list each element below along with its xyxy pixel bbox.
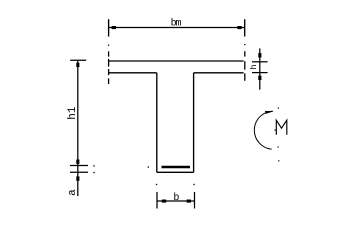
dimension a: outside box arrow below (76, 176, 79, 180)
extension dots from a-dimension to beam (93, 165, 149, 173)
dimension bm: left box arrow (112, 26, 116, 29)
svg-text:h1: h1 (67, 106, 79, 120)
dimension h1: bottom box arrow (76, 160, 79, 164)
flange right cut line (dashed) (244, 44, 246, 81)
svg-text:a: a (67, 189, 79, 196)
moment arc (254, 111, 272, 149)
flange left cut line (dashed) (108, 45, 110, 84)
dimension h1/a: dimension line (vertical) (77, 60, 79, 196)
dimension h: top extension tick (252, 61, 268, 63)
flange bottom line right of web (194, 72, 244, 74)
dimension h: bottom extension tick (252, 72, 268, 74)
flange top line (109, 60, 244, 62)
dimension b: left extension tick (156, 192, 158, 209)
dimension bm: left extension tick (108, 19, 110, 36)
dimension bm: right box arrow (237, 26, 241, 29)
svg-text:h: h (249, 64, 259, 69)
web right line (193, 73, 195, 173)
svg-text:b: b (173, 192, 179, 204)
moment label M (276, 120, 287, 135)
extension dots from web corners to b-dimension (156, 184, 195, 185)
reinforcement bar (thick line) (162, 166, 191, 168)
dimension b: left box arrow (162, 200, 166, 203)
svg-text:m: m (176, 19, 182, 30)
dimension b: dimension line (157, 200, 195, 202)
dimension bm: right extension tick (244, 19, 246, 36)
dimension bm: dimension line (109, 27, 245, 29)
flange bottom line left of web (109, 72, 157, 74)
dimension h: outside box arrow above (258, 53, 261, 57)
dimension b: right box arrow (187, 200, 191, 203)
dimension b: right extension tick (194, 192, 196, 209)
moment arrowhead (265, 111, 274, 114)
dimension h: outside box arrow below (258, 76, 261, 80)
web left line (156, 73, 158, 173)
dimension a: upper extension tick (steel centroid level) (70, 165, 88, 167)
stray plot dots near moment symbol (275, 107, 280, 161)
dimension h1: top box arrow (76, 63, 79, 67)
dimension h1: top extension tick (70, 59, 86, 61)
dimension a: lower extension tick (beam soffit level) (70, 171, 88, 173)
dimension h (flange depth, right): dimension line (259, 48, 261, 89)
web bottom line (157, 171, 194, 173)
